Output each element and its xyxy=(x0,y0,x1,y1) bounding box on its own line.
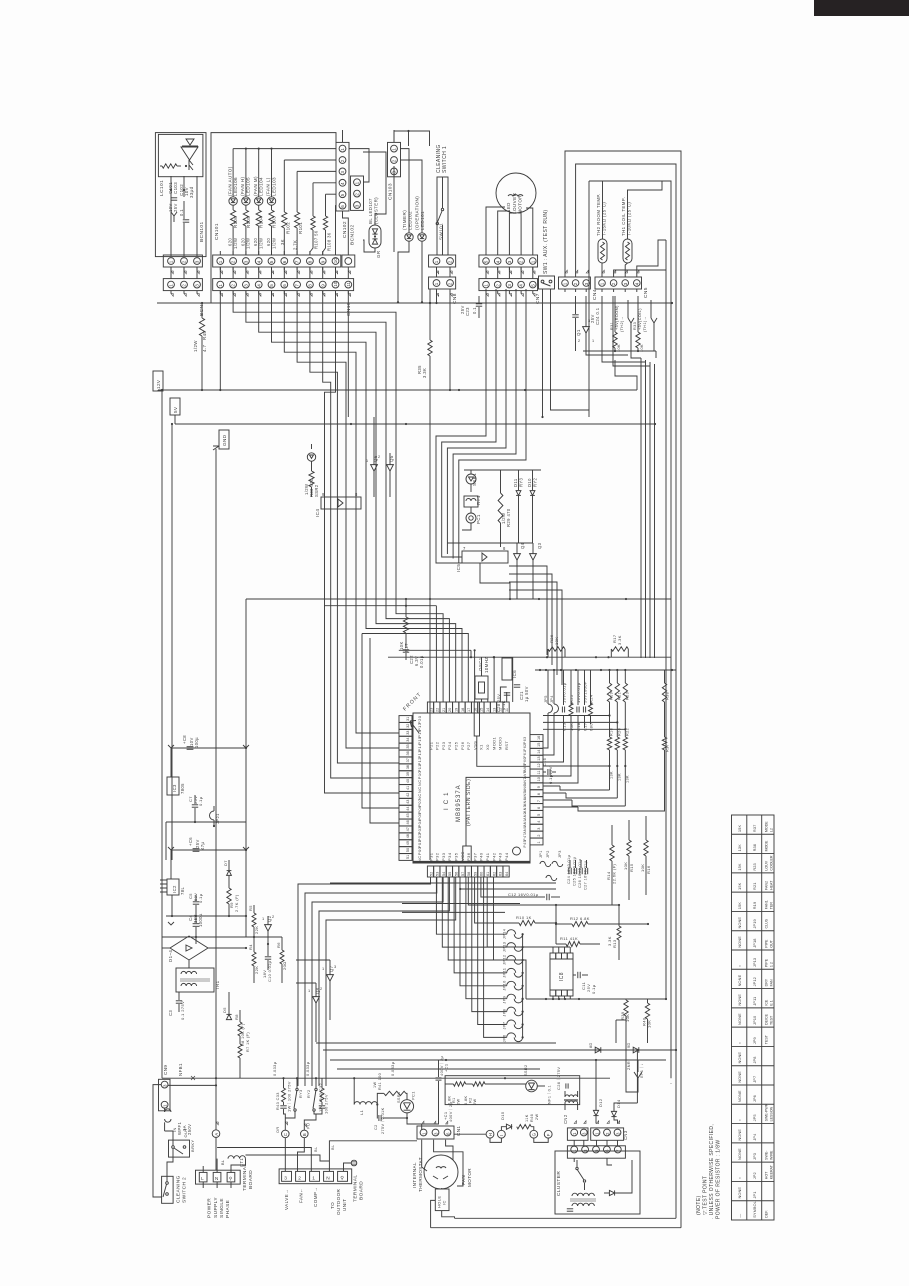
svg-text:CLEANING: CLEANING xyxy=(176,1175,182,1203)
svg-text:10MHZ: 10MHZ xyxy=(484,657,489,673)
svg-text:NONE: NONE xyxy=(737,1129,742,1141)
svg-text:57: 57 xyxy=(461,872,465,876)
svg-text:P60: P60 xyxy=(523,757,527,764)
svg-text:2W: 2W xyxy=(473,1098,477,1105)
wire CN8 drops xyxy=(436,291,438,303)
svg-text:NONE: NONE xyxy=(737,1187,742,1199)
svg-text:13: 13 xyxy=(537,756,541,760)
svg-text:18: 18 xyxy=(461,708,465,712)
wire bundle IC5 right xyxy=(509,566,547,655)
svg-text:15K: 15K xyxy=(737,902,742,910)
svg-text:POWER: POWER xyxy=(207,1198,213,1218)
wire IC5 inputs xyxy=(436,545,462,563)
svg-text:AVR: AVR xyxy=(523,770,527,778)
connector CN9 xyxy=(159,1079,171,1111)
svg-text:3: 3 xyxy=(244,284,249,287)
wire extra left pin links xyxy=(362,634,399,809)
svg-text:(TH2)→: (TH2)→ xyxy=(620,316,624,332)
svg-text:CN7: CN7 xyxy=(535,293,541,304)
svg-text:R8: R8 xyxy=(234,1014,239,1020)
terminal board 1 box xyxy=(196,1170,241,1184)
svg-text:11: 11 xyxy=(505,708,509,712)
svg-text:42: 42 xyxy=(406,793,410,797)
svg-text:0.1: 0.1 xyxy=(179,209,184,216)
svg-text:34: 34 xyxy=(406,737,410,741)
svg-text:R37: R37 xyxy=(666,744,670,752)
svg-text:JP5: JP5 xyxy=(752,1114,757,1121)
svg-text:BOARD: BOARD xyxy=(248,1170,254,1189)
svg-text:R103: R103 xyxy=(272,216,277,228)
capacitor C6 47u 25V xyxy=(171,849,246,851)
svg-text:JP9: JP9 xyxy=(502,996,507,1004)
svg-text:P26: P26 xyxy=(460,741,465,750)
svg-text:CN5: CN5 xyxy=(643,287,649,298)
svg-text:10K: 10K xyxy=(554,637,559,645)
svg-text:21: 21 xyxy=(442,708,446,712)
wire MOD RST right xyxy=(493,657,495,702)
svg-text:JP7: JP7 xyxy=(502,1022,507,1030)
diode D7 xyxy=(227,871,232,876)
svg-text:PHASE: PHASE xyxy=(225,1200,231,1218)
node C xyxy=(282,1130,290,1138)
svg-text:18V: 18V xyxy=(262,970,267,978)
svg-text:NONE: NONE xyxy=(737,1148,742,1160)
svg-text:1: 1 xyxy=(169,284,174,287)
wire IC8 pins xyxy=(552,947,554,953)
remote sensor unit inner box xyxy=(158,134,203,176)
svg-text:B: B xyxy=(302,1133,307,1136)
svg-text:25V: 25V xyxy=(173,203,178,212)
svg-text:JP4: JP4 xyxy=(752,1133,757,1141)
svg-text:2: 2 xyxy=(573,282,578,285)
svg-text:R21: R21 xyxy=(752,883,757,890)
resistor R105 620 1/2W xyxy=(243,210,248,226)
svg-text:22K: 22K xyxy=(254,926,259,934)
svg-text:13K: 13K xyxy=(625,775,629,783)
svg-text:1: 1 xyxy=(600,282,605,285)
LED107 cluster indicator BL/GR xyxy=(369,225,381,248)
ic IC1 pin1 marker circle xyxy=(513,847,521,855)
svg-text:9D: 9D xyxy=(627,1042,631,1048)
transformer CT1 xyxy=(228,1156,245,1159)
svg-text:P10: P10 xyxy=(417,771,422,780)
svg-text:2: 2 xyxy=(298,1175,301,1181)
svg-text:JP6: JP6 xyxy=(502,1034,507,1042)
svg-text:P62: P62 xyxy=(523,743,527,750)
svg-text:13: 13 xyxy=(492,708,496,712)
capacitor C16 0.1 25V xyxy=(547,769,549,775)
svg-text:KEERAT: KEERAT xyxy=(769,1164,773,1179)
louver motor LM xyxy=(496,173,536,213)
svg-text:1 2: 1 2 xyxy=(769,962,773,967)
svg-text:3.3K: 3.3K xyxy=(617,635,622,645)
svg-text:JP7: JP7 xyxy=(752,1076,757,1083)
wire staircase to IC1 left pins xyxy=(284,291,399,733)
ic IC6 xyxy=(502,658,512,680)
svg-text:GR: GR xyxy=(376,251,381,258)
svg-text:R29 470: R29 470 xyxy=(506,508,511,527)
svg-text:(TH1)→: (TH1)→ xyxy=(643,316,647,332)
svg-text:HOT: HOT xyxy=(764,1171,768,1179)
wire X1 X0 to OSC1 xyxy=(487,699,489,702)
svg-text:. UNLESS OTHERWISE SPECIFIED,: . UNLESS OTHERWISE SPECIFIED, xyxy=(709,1124,715,1219)
resistor R38 xyxy=(664,670,666,683)
resistor R27 10K xyxy=(403,617,408,633)
terminal board squares L N E xyxy=(199,1172,207,1182)
connector CN102 vertical 6 pins xyxy=(336,142,349,211)
svg-text:UNIT: UNIT xyxy=(342,1199,347,1211)
wire C22 rail xyxy=(399,649,471,651)
svg-text:0.1µ: 0.1µ xyxy=(591,984,596,994)
svg-text:D12: D12 xyxy=(598,1098,603,1107)
svg-text:CN102: CN102 xyxy=(342,221,348,238)
resistor R37 xyxy=(662,737,666,750)
svg-text:SW1 : AUX. (TEST RUN): SW1 : AUX. (TEST RUN) xyxy=(543,210,549,274)
ic IC1 right pin strip xyxy=(530,735,543,742)
svg-text:1/2W: 1/2W xyxy=(271,238,276,249)
svg-text:1: 1 xyxy=(530,260,535,263)
svg-text:P33: P33 xyxy=(441,852,446,861)
cluster diode xyxy=(609,1190,614,1195)
svg-text:2W: 2W xyxy=(535,1113,539,1120)
svg-text:33: 33 xyxy=(406,731,410,735)
svg-text:P40: P40 xyxy=(479,852,484,861)
svg-text:(OPERATION): (OPERATION) xyxy=(415,196,420,230)
wires hole ic to frame xyxy=(431,1200,436,1227)
svg-text:RY2: RY2 xyxy=(533,477,538,487)
svg-text:64: 64 xyxy=(505,872,509,876)
ground circle at board2 xyxy=(344,1163,352,1171)
node I xyxy=(498,1130,506,1138)
svg-text:0.033µ: 0.033µ xyxy=(305,1061,310,1076)
wire column bottoms to IC xyxy=(560,786,610,790)
svg-text:5: 5 xyxy=(340,193,345,196)
wire nested loop inner xyxy=(588,181,590,410)
svg-text:SSR2: SSR2 xyxy=(314,484,319,497)
wires louver motor to CN7 xyxy=(486,207,505,255)
wires SSR1 block xyxy=(377,1093,384,1104)
node 12V xyxy=(153,371,163,391)
connector CN5 4 pins xyxy=(595,277,642,289)
wire rail drops xyxy=(665,998,667,1000)
svg-text:4: 4 xyxy=(256,260,261,263)
svg-text:BCN102: BCN102 xyxy=(350,224,356,245)
svg-text:NONE: NONE xyxy=(737,974,742,986)
diode D8 xyxy=(595,1047,601,1053)
svg-text:R14: R14 xyxy=(606,871,611,880)
connector CN7 row 2 pins 1-5 xyxy=(479,279,538,291)
svg-text:51: 51 xyxy=(406,855,410,859)
svg-text:3: 3 xyxy=(355,204,360,207)
transistor Q7 xyxy=(327,975,334,981)
svg-text:2: 2 xyxy=(578,339,581,343)
svg-text:AN0: AN0 xyxy=(523,826,527,834)
svg-text:IC3: IC3 xyxy=(172,784,177,792)
svg-text:100µ: 100µ xyxy=(194,737,199,748)
svg-text:R8 10K (F): R8 10K (F) xyxy=(241,1023,245,1046)
resistor R9 2.7K(F) xyxy=(227,888,231,904)
svg-text:R23: R23 xyxy=(625,692,629,700)
wire terminals board1 xyxy=(202,1182,204,1188)
svg-text:D14: D14 xyxy=(616,1099,621,1108)
svg-text:RST: RST xyxy=(504,741,509,750)
wire zener bottom rail xyxy=(583,350,656,352)
svg-text:D10: D10 xyxy=(527,478,532,487)
svg-text:50V1000P: 50V1000P xyxy=(583,681,588,703)
svg-text:LED104: LED104 xyxy=(259,177,264,196)
svg-text:40: 40 xyxy=(406,779,410,783)
wire to CN1 xyxy=(407,1118,422,1130)
node F xyxy=(544,1130,552,1138)
svg-text:X1: X1 xyxy=(479,744,484,750)
svg-text:NONE: NONE xyxy=(737,1013,742,1025)
svg-text:P35: P35 xyxy=(454,852,459,861)
svg-text:3: 3 xyxy=(284,1175,287,1181)
svg-text:R33: R33 xyxy=(633,322,637,330)
svg-text:SW101: SW101 xyxy=(439,223,444,240)
svg-text:2: 2 xyxy=(519,260,524,263)
svg-text:0.033µ: 0.033µ xyxy=(272,1061,277,1076)
svg-text:11: 11 xyxy=(537,771,541,775)
svg-text:12: 12 xyxy=(499,708,503,712)
transistor Q3 xyxy=(530,554,537,560)
svg-text:6: 6 xyxy=(282,260,287,263)
svg-text:R107 56: R107 56 xyxy=(314,230,319,249)
svg-text:NFB1: NFB1 xyxy=(178,1063,183,1076)
svg-text:36: 36 xyxy=(406,751,410,755)
svg-text:2: 2 xyxy=(611,282,616,285)
svg-text:AN3: AN3 xyxy=(523,805,527,813)
svg-text:BL: BL xyxy=(221,1160,225,1165)
svg-text:56: 56 xyxy=(455,872,459,876)
svg-text:IC4: IC4 xyxy=(315,509,320,517)
svg-text:13K: 13K xyxy=(610,771,614,779)
svg-text:1: 1 xyxy=(340,148,345,151)
svg-text:46: 46 xyxy=(406,820,410,824)
svg-text:2: 2 xyxy=(182,260,187,263)
svg-text:47: 47 xyxy=(406,827,410,831)
wires LC101 to BCN101 xyxy=(170,176,172,256)
svg-text:CN8: CN8 xyxy=(452,293,458,304)
node GND xyxy=(219,430,229,449)
svg-text:35: 35 xyxy=(406,744,410,748)
resistor R108 36 xyxy=(323,216,327,230)
svg-text:I: I xyxy=(499,1135,504,1136)
svg-text:PIPE: PIPE xyxy=(764,939,768,948)
resistor R30 470 xyxy=(309,471,314,487)
svg-text:OUT: OUT xyxy=(183,1128,188,1138)
wires fan motor xyxy=(434,1140,463,1186)
svg-text:FAN: FAN xyxy=(461,1175,466,1185)
svg-text:2.7K (F): 2.7K (F) xyxy=(234,894,239,912)
svg-text:P36: P36 xyxy=(466,852,471,861)
svg-text:H: H xyxy=(488,1133,493,1136)
resistor R8 R7 xyxy=(238,1022,242,1036)
svg-text:P22: P22 xyxy=(435,741,440,750)
svg-text:10K: 10K xyxy=(623,862,628,870)
resistors R19 R21 R23 column xyxy=(609,670,611,683)
svg-text:54: 54 xyxy=(442,872,446,876)
svg-text:SWITCH 2: SWITCH 2 xyxy=(182,1177,188,1203)
svg-text:MODE: MODE xyxy=(764,840,768,851)
svg-text:R12 6.8K: R12 6.8K xyxy=(570,916,590,921)
svg-text:620: 620 xyxy=(240,238,245,246)
svg-text:RY3: RY3 xyxy=(299,1089,303,1098)
svg-text:○: ○ xyxy=(737,965,742,967)
svg-text:CN10: CN10 xyxy=(346,302,352,316)
wire G-F link xyxy=(534,1138,548,1143)
wire bottom rails xyxy=(316,1042,556,1044)
svg-text:(FAN AUTO): (FAN AUTO) xyxy=(227,166,232,196)
svg-text:1/2W: 1/2W xyxy=(193,340,198,352)
svg-text:R23: R23 xyxy=(752,863,757,870)
relay RY2 contact xyxy=(315,1088,317,1090)
svg-text:PC1: PC1 xyxy=(411,1091,416,1100)
resistors R1 R2 6.8K 2W xyxy=(453,1082,465,1086)
svg-text:1: 1 xyxy=(434,282,439,285)
capacitor C8 100u 10V xyxy=(171,747,246,749)
svg-text:+C1: +C1 xyxy=(443,1112,448,1120)
svg-text:33µd: 33µd xyxy=(189,186,194,198)
svg-text:N: N xyxy=(326,1175,330,1181)
wire 5V rail xyxy=(174,415,176,424)
svg-text:R46: R46 xyxy=(530,1114,534,1122)
transistor inside LC101 xyxy=(189,160,193,170)
svg-text:11K: 11K xyxy=(525,1114,529,1122)
svg-text:0.1: 0.1 xyxy=(472,307,477,314)
svg-text:THERMOSTAT: THERMOSTAT xyxy=(418,1157,423,1192)
svg-text:P23: P23 xyxy=(441,741,446,750)
svg-text:6: 6 xyxy=(340,205,345,208)
resistor R39 10K xyxy=(624,1000,628,1016)
svg-text:9: 9 xyxy=(322,492,325,497)
svg-text:15K: 15K xyxy=(737,863,742,871)
connector CN10 row 2 pins 1-11 xyxy=(213,279,354,291)
svg-text:AN4: AN4 xyxy=(523,798,527,806)
svg-text:P61: P61 xyxy=(523,750,527,757)
svg-text:3: 3 xyxy=(584,282,589,285)
definition table xyxy=(732,815,775,1220)
ic IC1 VCC pin extension xyxy=(463,846,471,863)
svg-text:1/2W: 1/2W xyxy=(246,238,251,249)
LED SSR2 indicator xyxy=(307,453,315,461)
svg-text:CN101: CN101 xyxy=(214,223,220,240)
wire R39 R40 box xyxy=(616,1019,626,1021)
svg-text:16V0.01µ: 16V0.01µ xyxy=(576,682,581,703)
svg-text:1/2W: 1/2W xyxy=(259,238,264,249)
wire IC1 bottom pins to R10 region xyxy=(468,877,619,905)
svg-text:1: 1 xyxy=(355,181,360,184)
diode D10 relay RY2 xyxy=(530,491,535,496)
capacitor C1 2u 400V xyxy=(436,1077,442,1079)
wire SSR1 block top xyxy=(464,469,541,471)
svg-text:(FAN H): (FAN H) xyxy=(240,177,245,196)
resistor R14 22.6K(F) xyxy=(610,845,614,861)
resistor R107 56 xyxy=(311,216,315,230)
wire C8 verticals xyxy=(170,748,172,777)
svg-text:JP13: JP13 xyxy=(752,958,757,967)
svg-text:C28｜275V: C28｜275V xyxy=(556,1067,561,1090)
svg-text:MOTOR: MOTOR xyxy=(518,195,523,214)
node 5V xyxy=(170,398,180,415)
ic IC1 top pin strip xyxy=(427,702,433,713)
svg-text:R16: R16 xyxy=(646,865,651,874)
svg-text:4: 4 xyxy=(256,284,261,287)
wire LED anode rail xyxy=(233,148,336,150)
svg-text:BL: BL xyxy=(313,1146,318,1152)
wire 5V drop left xyxy=(171,424,173,860)
svg-text:TERMINAL: TERMINAL xyxy=(353,1175,359,1202)
svg-text:BOARD: BOARD xyxy=(359,1181,365,1200)
svg-text:R7 1K (F): R7 1K (F) xyxy=(246,1032,250,1052)
svg-text:5: 5 xyxy=(530,284,535,287)
svg-text:0.1µ: 0.1µ xyxy=(198,796,203,806)
svg-text:1: 1 xyxy=(366,459,369,463)
svg-text:R102: R102 xyxy=(285,222,290,234)
capacitor C3 0.1 275V xyxy=(176,1000,182,1002)
svg-text:5: 5 xyxy=(269,260,274,263)
svg-text:(CLUSTER): (CLUSTER) xyxy=(374,197,379,224)
wire CN7 pins down xyxy=(436,289,486,545)
svg-text:JP2: JP2 xyxy=(546,850,550,858)
svg-text:P47: P47 xyxy=(523,833,527,840)
fuse WPF1 3A 250V xyxy=(164,1108,166,1112)
svg-text:+C8: +C8 xyxy=(182,735,187,744)
svg-text:SWE-PWR: SWE-PWR xyxy=(764,1103,768,1121)
svg-text:R13: R13 xyxy=(612,939,617,948)
svg-text:C12 16V0.01µ: C12 16V0.01µ xyxy=(508,892,539,897)
LED SSR1 xyxy=(466,474,476,484)
svg-text:P63: P63 xyxy=(523,737,527,744)
wire network drops to bundle xyxy=(655,351,657,358)
svg-text:0.1 275V: 0.1 275V xyxy=(180,1001,185,1020)
svg-text:—: — xyxy=(737,1214,742,1218)
svg-text:10K: 10K xyxy=(640,864,645,872)
svg-text:L: L xyxy=(201,1176,204,1181)
svg-text:4: 4 xyxy=(634,282,639,285)
svg-text:1: 1 xyxy=(262,916,265,921)
svg-text:50: 50 xyxy=(406,848,410,852)
svg-text:I C 1: I C 1 xyxy=(444,791,450,810)
svg-text:LC101: LC101 xyxy=(159,180,165,196)
svg-text:47µ: 47µ xyxy=(200,842,205,850)
svg-text:X0: X0 xyxy=(485,744,490,750)
svg-text:R45: R45 xyxy=(202,331,207,340)
svg-text:1: 1 xyxy=(218,260,223,263)
svg-text:20Ω: 20Ω xyxy=(282,961,287,970)
switch SW1 xyxy=(539,276,555,289)
svg-text:0.1µ: 0.1µ xyxy=(198,893,203,903)
svg-text:C: C xyxy=(283,1133,288,1136)
svg-text:L2: L2 xyxy=(769,828,773,832)
svg-text:R2: R2 xyxy=(469,1097,473,1103)
wire staircase to IC1 top risers xyxy=(233,291,443,702)
svg-text:L1: L1 xyxy=(359,1109,364,1115)
svg-text:1: 1 xyxy=(218,284,223,287)
relay RY3 contact xyxy=(296,1088,298,1090)
svg-text:TH1 COIL TEMP.: TH1 COIL TEMP. xyxy=(621,197,626,236)
wire bottom frame outer xyxy=(431,1227,681,1229)
svg-text:P43: P43 xyxy=(498,852,503,861)
svg-text:2: 2 xyxy=(378,455,381,459)
svg-text:R37: R37 xyxy=(752,825,757,832)
svg-text:+C1: +C1 xyxy=(444,1064,449,1072)
jumpers JP6-JP14 staircase xyxy=(507,930,516,935)
svg-text:AN6: AN6 xyxy=(523,784,527,792)
connector CN101 row 1 pins 1-10 xyxy=(213,255,341,267)
svg-text:10: 10 xyxy=(333,281,338,287)
svg-text:CN103: CN103 xyxy=(388,183,394,200)
